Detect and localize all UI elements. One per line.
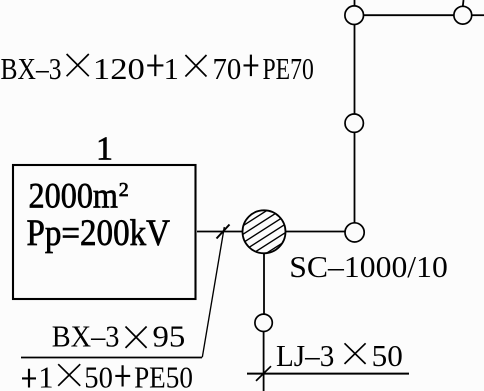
svg-text:SC–1000/10: SC–1000/10 bbox=[289, 250, 448, 284]
svg-text:50: 50 bbox=[84, 361, 113, 391]
svg-text:70: 70 bbox=[213, 52, 242, 86]
svg-text:BX–3: BX–3 bbox=[1, 52, 62, 86]
svg-text:2: 2 bbox=[119, 179, 129, 201]
svg-text:95: 95 bbox=[153, 319, 186, 353]
svg-text:50: 50 bbox=[372, 339, 403, 373]
svg-text:2000m: 2000m bbox=[29, 176, 119, 216]
svg-text:PE50: PE50 bbox=[134, 361, 193, 391]
svg-text:BX–3: BX–3 bbox=[52, 319, 120, 353]
svg-text:1: 1 bbox=[164, 52, 179, 86]
svg-text:1: 1 bbox=[38, 361, 53, 391]
svg-text:LJ–3: LJ–3 bbox=[276, 339, 334, 373]
svg-text:PE70: PE70 bbox=[263, 52, 314, 86]
svg-text:1: 1 bbox=[96, 131, 113, 168]
svg-text:120: 120 bbox=[93, 52, 145, 86]
svg-text:Pp=200kV: Pp=200kV bbox=[27, 212, 171, 253]
